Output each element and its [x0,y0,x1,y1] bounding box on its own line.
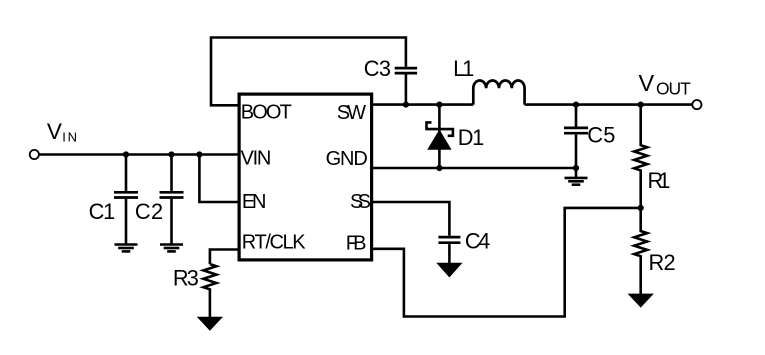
junction C3/SW [403,102,409,108]
ground R2 [629,294,653,307]
junction C5 bottom [573,165,579,171]
svg-text:SS: SS [350,191,371,213]
wire VIN rail [39,153,239,156]
svg-text:L1: L1 [453,56,474,81]
junction D1 top [436,102,442,108]
capacitor C5 [564,105,615,168]
svg-text:FB: FB [346,233,367,255]
wire GND net [372,167,577,170]
ground C4 [437,263,461,277]
capacitor C2 [135,155,184,245]
junction C1 tap [123,151,129,157]
ground C1 [115,245,138,252]
wire RT/CLK to R3 [210,250,239,265]
junction R1 top [638,102,644,108]
wire SS to C4 [372,202,450,236]
node VOUT label [639,70,692,99]
svg-text:C5: C5 [587,122,615,147]
junction D1 bottom [436,165,442,171]
resistor R2 [634,208,675,294]
inductor L1 [453,56,524,105]
svg-text:C2: C2 [135,199,163,224]
wire SW net [372,103,474,106]
svg-text:D1: D1 [458,125,484,150]
svg-text:C4: C4 [465,229,490,254]
ground R3 [198,317,222,330]
op-amp U1 regulator IC box [239,94,372,260]
junction C5 top [573,102,579,108]
wire EN connection [199,155,239,203]
svg-text:R1: R1 [648,168,671,193]
svg-text:OUT: OUT [656,79,691,99]
svg-text:V: V [47,119,62,144]
junction R1/R2/FB [638,205,644,211]
svg-text:C1: C1 [89,199,116,224]
node VIN terminal [30,150,39,159]
svg-text:V: V [639,70,655,96]
svg-text:R2: R2 [649,250,676,275]
capacitor C4 [438,229,490,264]
resistor R1 [634,105,670,208]
wire VOUT rail [525,103,693,106]
capacitor C3 [364,56,417,105]
svg-text:R3: R3 [173,265,199,290]
wire FB feedback loop [372,208,641,317]
svg-text:C3: C3 [364,56,391,81]
node VIN label [47,119,77,144]
wire BOOT loop [211,38,406,106]
svg-text:BOOT: BOOT [241,101,292,123]
svg-text:RT/CLK: RT/CLK [242,232,306,254]
ground C2 [160,245,183,252]
resistor R3 [173,264,217,317]
capacitor C1 [89,155,138,245]
svg-text:VIN: VIN [241,147,272,169]
svg-text:EN: EN [242,191,267,213]
svg-text:SW: SW [337,102,366,124]
svg-text:IN: IN [62,129,77,144]
junction EN tap [196,151,202,157]
node VOUT terminal [692,100,701,109]
diode D1 schottky [427,105,485,168]
junction C2 tap [168,151,174,157]
svg-text:GND: GND [326,148,368,170]
ground C5 [565,168,588,185]
